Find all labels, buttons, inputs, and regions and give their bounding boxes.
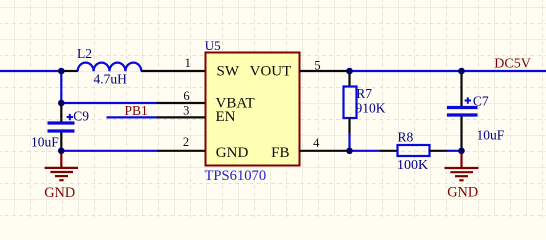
wire: VBAT net, tee to pin 6 (y=103) [61, 102, 156, 104]
wire: vertical from junction A down to VBAT tee [60, 71, 62, 103]
svg-text:910K: 910K [356, 101, 386, 116]
svg-text:FB: FB [271, 145, 289, 161]
svg-text:EN: EN [216, 109, 236, 125]
wire: EN net with PB1 stub (y=117.4) [107, 116, 157, 118]
junction dot C9 bottom / GND [58, 148, 65, 155]
resistor R8 body [398, 145, 430, 156]
svg-text:10uF: 10uF [477, 127, 505, 142]
capacitor C9 plates [48, 121, 75, 124]
svg-text:4.7uH: 4.7uH [94, 72, 128, 87]
inductor L2 humps [78, 63, 142, 72]
inductor L2 pins (black) [62, 70, 78, 72]
svg-text:L2: L2 [77, 46, 92, 61]
capacitor C7 plates [447, 106, 478, 109]
ground symbol below C9 [45, 151, 78, 180]
wire: VOUT net junction B to junction C to right edge [350, 70, 546, 72]
svg-text:100K: 100K [397, 158, 428, 173]
junction dot B (VOUT/R7) [346, 68, 353, 75]
capacitor C7 bottom pin [460, 117, 462, 151]
svg-text:PB1: PB1 [125, 103, 148, 118]
wire: R7 to FB junction [348, 133, 350, 151]
svg-text:R7: R7 [356, 86, 372, 101]
junction dot C (VOUT/C7) [458, 68, 465, 75]
svg-text:6: 6 [183, 89, 189, 103]
capacitor C7 plus sign [465, 97, 471, 103]
capacitor C7 top pin [460, 71, 462, 106]
wire: main input net, left edge to junction A (y=71) [0, 70, 62, 72]
resistor R8 right pin [430, 150, 447, 152]
resistor R7 body [344, 87, 357, 119]
junction dot A (input/L2/C9) [58, 68, 65, 75]
resistor R7 bottom pin [348, 118, 350, 135]
svg-text:C7: C7 [473, 93, 489, 108]
svg-text:U5: U5 [205, 38, 221, 53]
capacitor C9 bottom pin [60, 133, 62, 151]
capacitor C9 top pin [60, 103, 62, 122]
svg-text:GND: GND [44, 185, 75, 201]
svg-text:GND: GND [447, 184, 478, 200]
svg-text:10uF: 10uF [31, 135, 59, 150]
pin 4 stub (FB) [299, 150, 350, 152]
svg-text:TPS61070: TPS61070 [205, 168, 267, 184]
svg-text:DC5V: DC5V [494, 56, 531, 71]
svg-text:C9: C9 [73, 109, 89, 124]
svg-text:1: 1 [185, 56, 191, 70]
svg-text:SW: SW [217, 64, 240, 80]
wire: R8 to C7/GND junction [447, 150, 462, 152]
svg-text:R8: R8 [398, 129, 414, 144]
resistor R7 top pin [348, 71, 350, 87]
svg-text:GND: GND [216, 145, 249, 161]
svg-text:VOUT: VOUT [250, 64, 292, 80]
resistor R8 left pin [380, 150, 398, 152]
ground symbol below C7 [445, 151, 479, 181]
junction dot R7/FB/R8 [346, 148, 353, 155]
pin 5 stub (VOUT) [299, 70, 350, 72]
junction dot VBAT tee [58, 100, 65, 107]
svg-text:2: 2 [183, 135, 189, 149]
capacitor C9 plus sign [67, 114, 73, 120]
junction dot C7 bottom / GND [458, 148, 465, 155]
svg-text:3: 3 [183, 104, 189, 118]
op-amp U5 body TPS61070 [206, 53, 300, 166]
wire: GND net C9 to pin 2 (y=150.8) [61, 150, 157, 152]
svg-text:4: 4 [313, 136, 320, 150]
wire: FB junction to R8 [350, 150, 381, 152]
